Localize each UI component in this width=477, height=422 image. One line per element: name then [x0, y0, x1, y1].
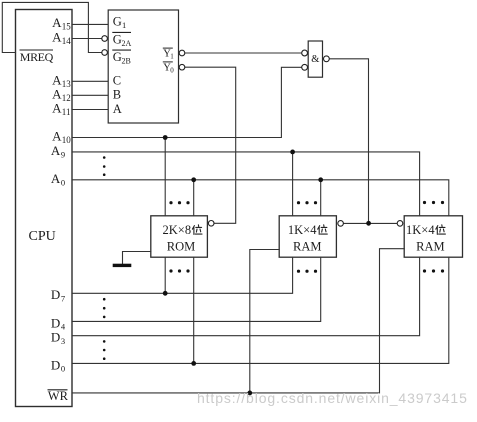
wire Y1 to NAND input	[185, 52, 302, 54]
svg-text:7: 7	[61, 294, 65, 304]
svg-text:https://blog.csdn.net/weixin_4: https://blog.csdn.net/weixin_43973415	[197, 390, 468, 406]
wire Y0 to ROM CS	[185, 67, 236, 223]
bubble G2B	[102, 50, 108, 56]
decoder pin Y1	[163, 48, 175, 61]
RAM1 data ellipsis	[297, 270, 317, 273]
wire RAM1 address left from A9	[292, 152, 294, 216]
svg-text:A: A	[51, 171, 61, 186]
CPU bus ellipsis dots A9-A0	[103, 156, 106, 176]
pin label WR	[48, 389, 69, 403]
svg-text:1K×4: 1K×4	[406, 223, 435, 237]
svg-text:RAM: RAM	[416, 240, 444, 254]
svg-text:C: C	[113, 73, 121, 87]
decoder U2 box	[108, 10, 178, 123]
RAM1 label 1K×4位	[288, 223, 327, 237]
wire A11 to A	[72, 109, 108, 111]
svg-text:14: 14	[62, 36, 72, 46]
svg-text:G: G	[113, 15, 122, 29]
CPU bus ellipsis dots D3-D0	[103, 340, 106, 360]
svg-text:ROM: ROM	[167, 240, 195, 254]
pin label A0	[51, 171, 65, 188]
pin label D0	[51, 357, 65, 373]
svg-text:0: 0	[170, 66, 174, 74]
bubble NAND output	[324, 56, 330, 62]
svg-text:A: A	[52, 72, 62, 87]
node A9-RAM1 junction	[290, 150, 295, 155]
wire CS link RAM1-RAM2	[343, 222, 397, 224]
decoder pin Y0	[163, 62, 175, 75]
svg-text:1K×4: 1K×4	[288, 223, 317, 237]
wire MREQ loop to G2B bubble	[2, 2, 102, 52]
node CS junction	[366, 221, 371, 226]
node D7-ROM junction	[163, 291, 168, 296]
NAND gate U3 box	[308, 41, 322, 77]
ground	[113, 264, 132, 267]
pin label D4	[51, 315, 66, 331]
svg-text:1: 1	[122, 20, 126, 30]
svg-text:WR: WR	[48, 389, 69, 403]
pin label A14	[52, 30, 71, 47]
pin label A13	[52, 72, 71, 89]
svg-text:&: &	[311, 54, 319, 65]
ROM address ellipsis	[169, 201, 189, 204]
bubble NAND input 1	[302, 50, 308, 56]
RAM2 label 1K×4位	[406, 223, 445, 237]
svg-text:A: A	[52, 101, 62, 116]
wire A0 bus to RAM2	[72, 180, 449, 216]
wire A12 to B	[72, 94, 108, 96]
ROM box	[151, 216, 208, 257]
bubble ROM CS	[208, 221, 214, 227]
svg-text:10: 10	[62, 135, 72, 145]
svg-text:12: 12	[62, 93, 71, 103]
svg-text:2B: 2B	[122, 57, 131, 66]
svg-text:D: D	[51, 315, 60, 330]
svg-text:D: D	[51, 287, 60, 302]
pin label D7	[51, 287, 65, 303]
svg-text:3: 3	[61, 336, 65, 346]
svg-text:A: A	[52, 86, 62, 101]
wire D0 bus to RAM2 data	[72, 257, 449, 363]
node WR-RAM1 junction	[247, 391, 252, 396]
svg-text:0: 0	[61, 364, 65, 374]
bubble RAM1 CS	[338, 221, 344, 227]
pin label A11	[52, 101, 70, 118]
svg-text:A: A	[51, 143, 61, 158]
wire WR bus to RAM2 WE	[72, 249, 404, 393]
wire D7 bus to RAM1 data	[72, 257, 293, 293]
bubble Y0	[179, 64, 185, 70]
svg-text:A: A	[113, 102, 122, 116]
svg-text:MREQ: MREQ	[20, 50, 54, 64]
svg-text:CPU: CPU	[29, 229, 56, 244]
svg-text:A: A	[52, 15, 62, 30]
pin label MREQ	[20, 50, 54, 64]
svg-text:1: 1	[170, 53, 174, 61]
node A0-ROM junction	[191, 177, 196, 182]
pin label D3	[51, 330, 65, 346]
decoder pin G2A	[112, 32, 131, 47]
CPU U1 box	[16, 10, 73, 407]
wire ROM data left to D7	[164, 257, 166, 293]
wire A14 to G2A bubble	[72, 38, 102, 40]
svg-text:9: 9	[61, 149, 65, 159]
wire NAND output to RAM CS junction	[329, 59, 368, 224]
ROM data ellipsis	[169, 269, 189, 272]
wire A13 to C	[72, 80, 108, 82]
bubble Y1	[179, 50, 185, 56]
bubble G2A	[102, 36, 108, 42]
CPU bus ellipsis dots D7-D4	[103, 298, 106, 318]
RAM1 box	[279, 216, 336, 257]
svg-text:11: 11	[62, 107, 71, 117]
svg-text:15: 15	[62, 22, 72, 32]
pin label A9	[51, 143, 65, 160]
pin label A12	[52, 86, 71, 103]
svg-text:A: A	[52, 30, 62, 45]
bubble NAND input 2	[302, 64, 308, 70]
svg-text:4: 4	[61, 322, 66, 332]
wire ROM address left from A10	[164, 138, 166, 216]
wire ROM address right from A0	[193, 180, 195, 216]
wire A15 to G1	[72, 23, 108, 25]
RAM2 address ellipsis	[423, 201, 444, 204]
svg-text:G: G	[113, 50, 122, 64]
wire A9 bus to RAM2	[72, 152, 420, 216]
svg-text:13: 13	[62, 79, 72, 89]
bubble RAM2 CS	[397, 221, 403, 227]
wire ROM pin to ground	[123, 252, 151, 265]
svg-text:D: D	[51, 357, 60, 372]
svg-text:2A: 2A	[122, 39, 132, 48]
svg-text:2K×8: 2K×8	[163, 223, 192, 237]
decoder pin G2B	[112, 50, 131, 65]
svg-text:RAM: RAM	[293, 240, 321, 254]
wire D3 bus to RAM2 data	[72, 257, 420, 336]
wire RAM1 address right from A0	[320, 180, 322, 216]
wire D4 bus to RAM1 data	[72, 257, 321, 321]
wire ROM data right to D0	[193, 257, 195, 363]
RAM2 data ellipsis	[423, 269, 444, 272]
node D0-ROM junction	[191, 361, 196, 366]
RAM1 address ellipsis	[297, 201, 317, 204]
pin label A15	[52, 15, 71, 32]
svg-text:A: A	[52, 129, 62, 144]
svg-text:0: 0	[61, 178, 65, 188]
RAM2 box	[404, 216, 462, 257]
svg-text:D: D	[51, 330, 60, 345]
svg-text:B: B	[113, 88, 121, 102]
wire RAM1 WE to WR	[250, 250, 279, 393]
node A0-RAM1 junction	[318, 177, 323, 182]
pin label A10	[52, 129, 71, 146]
svg-text:G: G	[113, 33, 122, 47]
ROM label 2K×8位	[163, 223, 203, 237]
decoder pin G1	[113, 15, 126, 31]
node A10-ROM junction	[163, 135, 168, 140]
wire A10 bus to NAND input	[72, 67, 302, 137]
